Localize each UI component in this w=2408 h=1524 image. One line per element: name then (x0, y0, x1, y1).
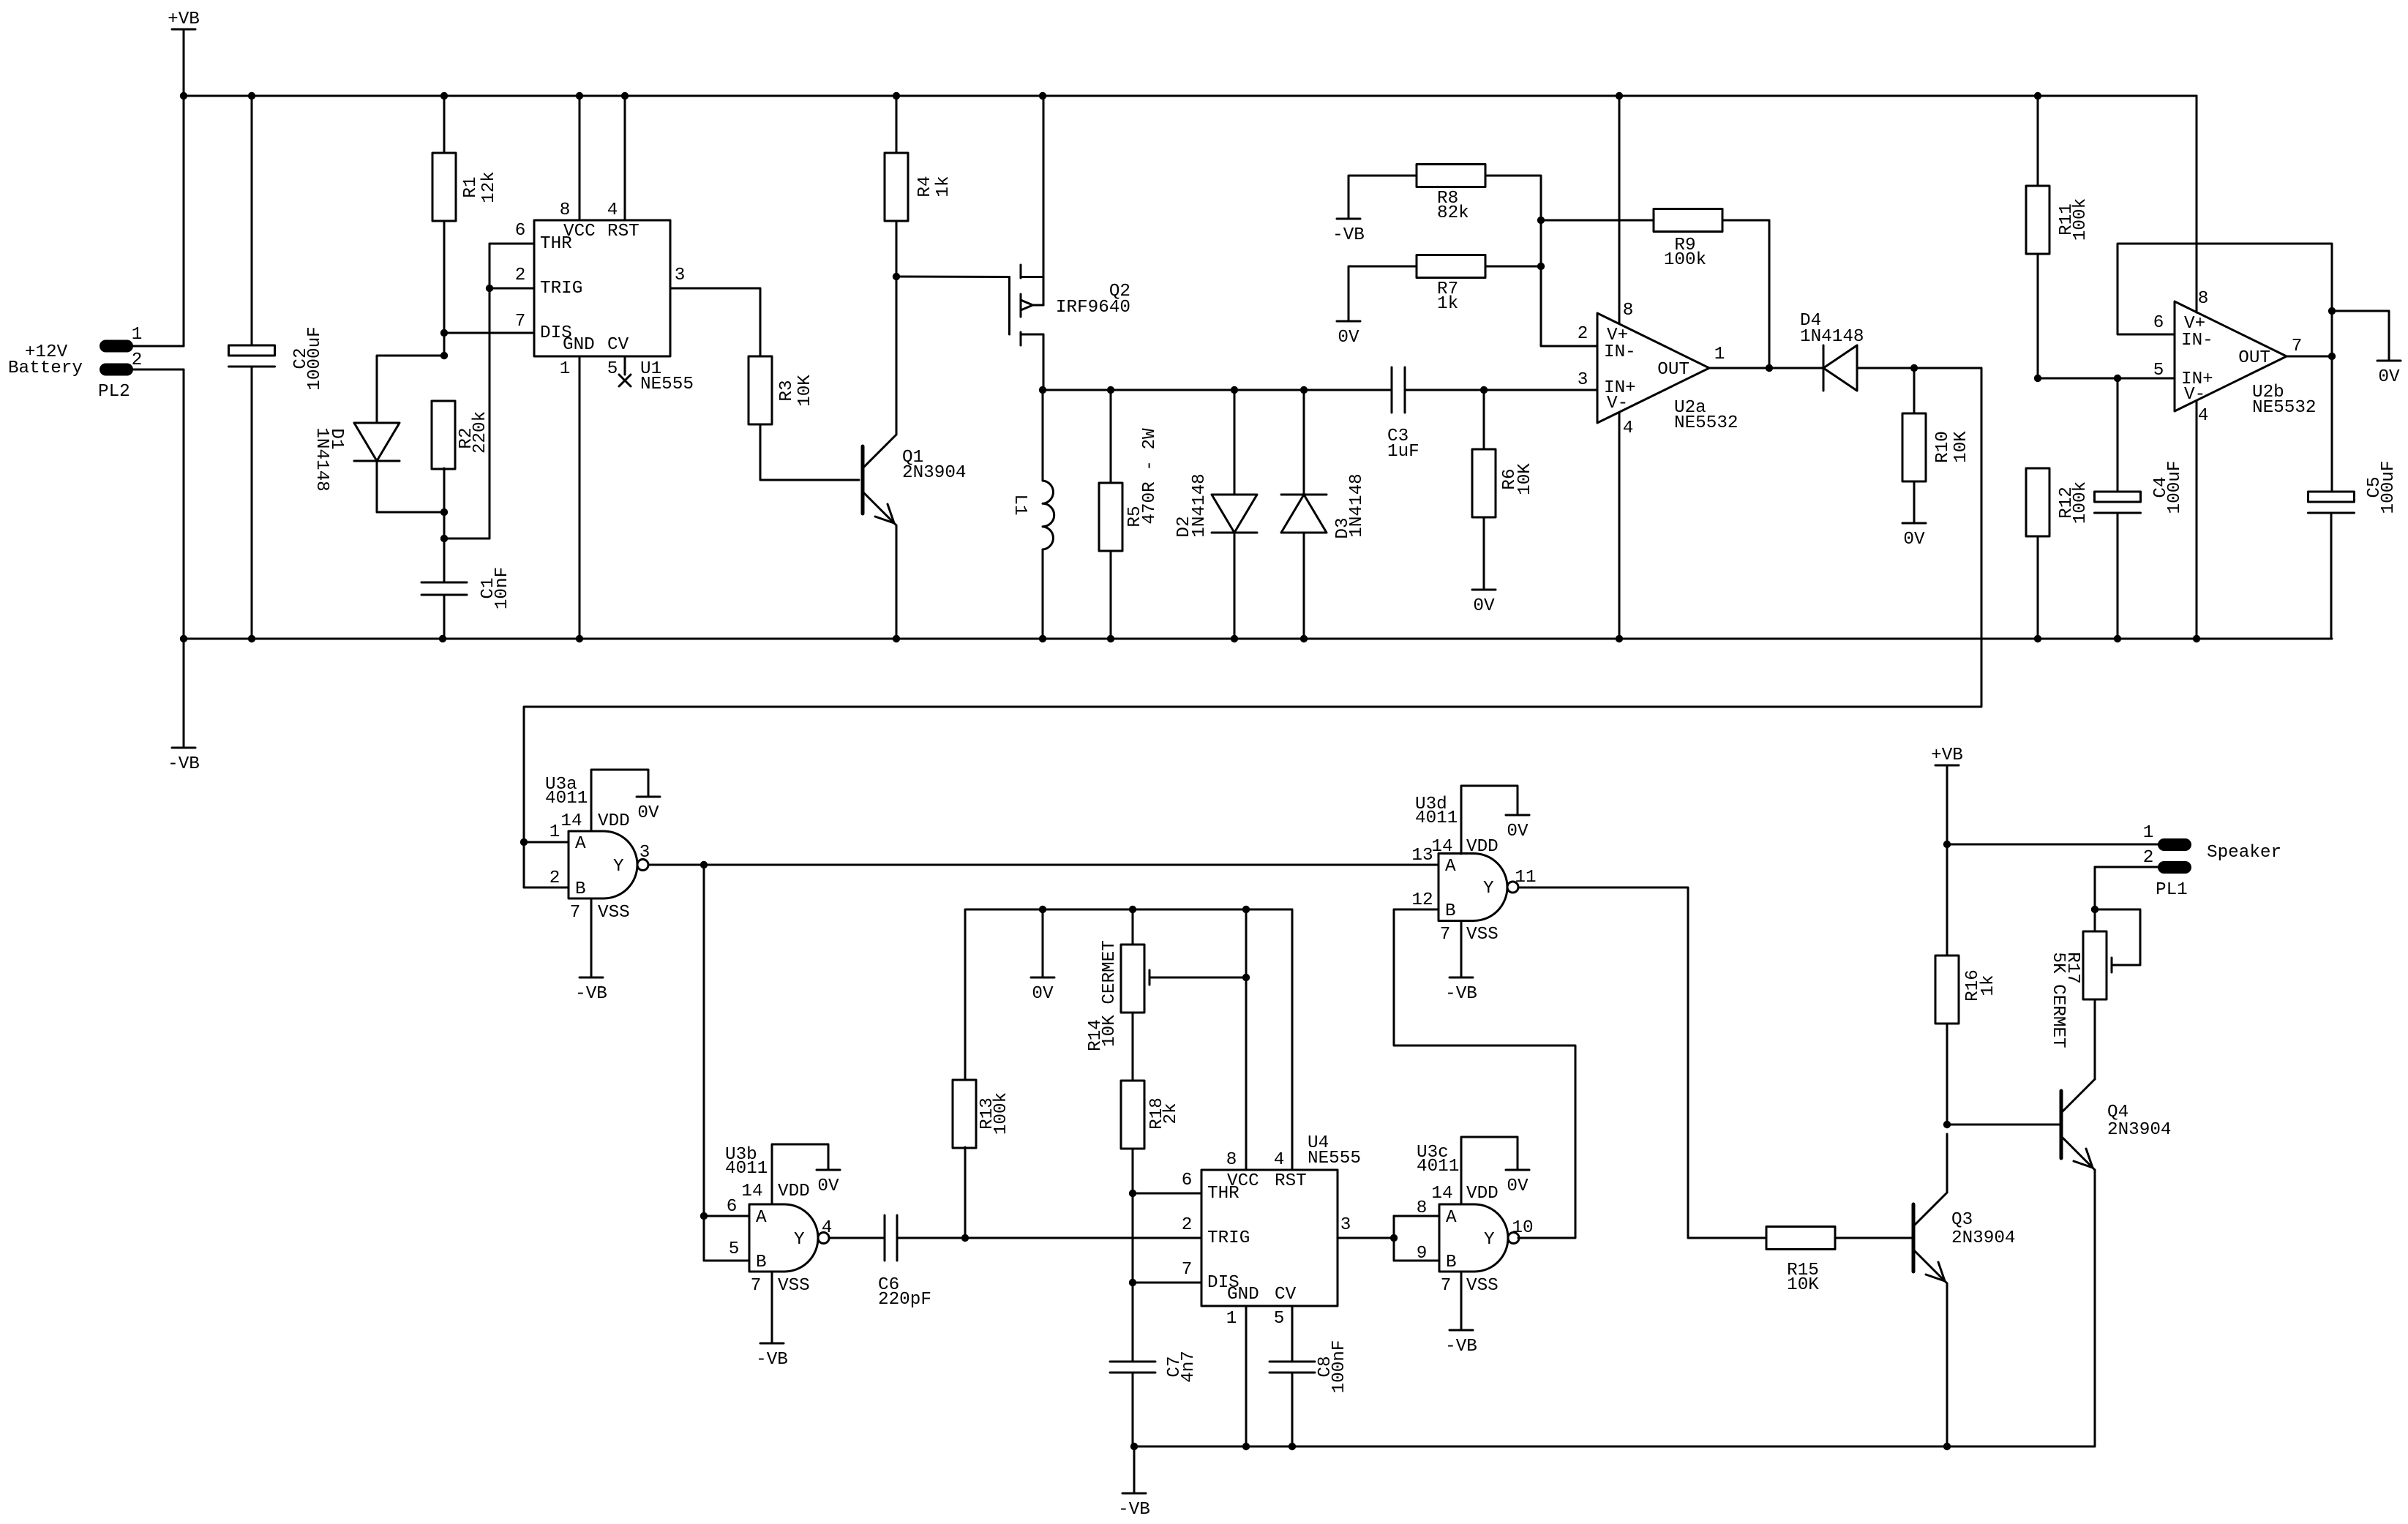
svg-text:-VB: -VB (756, 1350, 788, 1370)
svg-text:2: 2 (132, 350, 143, 370)
svg-text:7: 7 (515, 312, 526, 331)
svg-text:0V: 0V (1507, 1176, 1529, 1196)
svg-text:0V: 0V (637, 803, 659, 823)
svg-text:3: 3 (1340, 1215, 1351, 1235)
svg-text:GND: GND (563, 335, 595, 355)
svg-text:2: 2 (515, 266, 526, 285)
svg-text:0V: 0V (1338, 328, 1359, 348)
svg-text:5: 5 (729, 1239, 740, 1259)
svg-text:220pF: 220pF (878, 1290, 931, 1310)
svg-text:2: 2 (2143, 848, 2154, 868)
svg-text:1: 1 (1226, 1309, 1237, 1329)
svg-text:OUT: OUT (1657, 360, 1689, 380)
svg-text:1N4148: 1N4148 (1347, 473, 1367, 537)
svg-text:4: 4 (822, 1218, 833, 1238)
svg-text:7: 7 (570, 903, 581, 923)
svg-text:4: 4 (607, 200, 618, 220)
svg-text:R10: R10 (1933, 431, 1953, 463)
svg-text:VDD: VDD (598, 811, 630, 831)
svg-text:RST: RST (607, 222, 639, 241)
svg-text:82k: 82k (1437, 203, 1469, 223)
svg-text:OUT: OUT (2238, 348, 2270, 368)
svg-text:3: 3 (675, 266, 686, 285)
svg-text:RST: RST (1275, 1171, 1307, 1191)
svg-text:0V: 0V (1507, 822, 1529, 841)
svg-text:470R - 2W: 470R - 2W (1140, 428, 1160, 525)
svg-text:1000uF: 1000uF (305, 326, 325, 390)
svg-text:B: B (756, 1253, 767, 1272)
svg-text:14: 14 (1431, 837, 1452, 857)
svg-text:GND: GND (1227, 1285, 1259, 1305)
svg-text:7: 7 (1441, 1276, 1452, 1296)
svg-text:PL2: PL2 (98, 382, 130, 402)
svg-text:10K: 10K (795, 375, 815, 407)
svg-text:10nF: 10nF (492, 567, 512, 609)
svg-text:Y: Y (1484, 1230, 1495, 1250)
svg-text:VDD: VDD (778, 1182, 810, 1201)
svg-text:9: 9 (1417, 1244, 1428, 1264)
svg-text:1: 1 (550, 822, 560, 842)
svg-text:CV: CV (607, 335, 629, 355)
svg-text:2: 2 (550, 868, 560, 888)
svg-text:IN-: IN- (1604, 342, 1636, 362)
svg-text:PL1: PL1 (2156, 880, 2188, 900)
svg-text:0V: 0V (1032, 984, 1054, 1004)
svg-text:7: 7 (1440, 925, 1451, 945)
svg-text:4011: 4011 (1415, 808, 1458, 828)
svg-text:Y: Y (1483, 879, 1494, 898)
svg-text:-VB: -VB (1332, 225, 1365, 245)
svg-text:2k: 2k (1161, 1103, 1181, 1124)
svg-text:3: 3 (1578, 370, 1589, 390)
svg-text:1k: 1k (1978, 975, 1998, 996)
svg-text:14: 14 (1431, 1184, 1452, 1204)
svg-text:8: 8 (2198, 289, 2209, 309)
svg-text:2N3904: 2N3904 (902, 463, 966, 483)
svg-text:10K: 10K (1515, 463, 1535, 495)
svg-text:VDD: VDD (1466, 1184, 1499, 1204)
svg-text:2: 2 (1182, 1215, 1193, 1235)
svg-text:V-: V- (1607, 394, 1628, 413)
svg-text:A: A (756, 1208, 767, 1228)
svg-text:8: 8 (1623, 301, 1634, 320)
svg-text:5: 5 (607, 359, 618, 379)
svg-text:1N4148: 1N4148 (312, 427, 331, 491)
svg-text:CV: CV (1275, 1285, 1297, 1305)
svg-text:7: 7 (1182, 1260, 1193, 1280)
svg-text:6: 6 (515, 221, 526, 241)
svg-text:1uF: 1uF (1387, 442, 1419, 462)
svg-text:3: 3 (639, 843, 650, 863)
svg-text:4n7: 4n7 (1179, 1351, 1199, 1383)
svg-text:1k: 1k (1437, 294, 1458, 314)
svg-text:100k: 100k (991, 1092, 1011, 1135)
svg-text:5K CERMET: 5K CERMET (2048, 952, 2068, 1048)
svg-text:14: 14 (741, 1182, 762, 1201)
svg-text:VSS: VSS (598, 903, 630, 923)
svg-text:Q3: Q3 (1951, 1210, 1973, 1230)
svg-text:Speaker: Speaker (2207, 843, 2281, 863)
svg-text:IRF9640: IRF9640 (1056, 298, 1130, 318)
svg-text:1: 1 (560, 359, 571, 379)
svg-text:4011: 4011 (1417, 1157, 1459, 1176)
svg-text:VSS: VSS (1466, 925, 1499, 945)
svg-text:R4: R4 (915, 176, 935, 197)
svg-text:4011: 4011 (725, 1159, 768, 1179)
svg-text:7: 7 (2292, 337, 2303, 356)
svg-text:THR: THR (540, 234, 572, 254)
svg-text:VSS: VSS (778, 1276, 810, 1296)
svg-text:10K: 10K (1787, 1275, 1819, 1295)
svg-text:NE555: NE555 (640, 375, 694, 394)
svg-text:-VB: -VB (1445, 1337, 1477, 1356)
svg-text:1: 1 (1714, 345, 1725, 364)
svg-text:0V: 0V (1473, 596, 1495, 616)
svg-text:B: B (1445, 901, 1456, 921)
svg-text:12k: 12k (479, 171, 499, 203)
svg-text:2N3904: 2N3904 (2107, 1120, 2171, 1140)
svg-text:6: 6 (2153, 313, 2164, 333)
svg-text:4: 4 (2198, 406, 2209, 426)
svg-text:5: 5 (1274, 1309, 1285, 1329)
svg-text:-VB: -VB (1118, 1500, 1150, 1520)
svg-text:100k: 100k (2071, 198, 2090, 241)
svg-text:B: B (575, 879, 586, 899)
svg-text:12: 12 (1411, 890, 1433, 910)
svg-text:13: 13 (1411, 846, 1433, 866)
svg-text:+VB: +VB (168, 10, 200, 29)
svg-text:NE5532: NE5532 (1674, 413, 1738, 433)
svg-text:2: 2 (1578, 324, 1589, 344)
svg-text:8: 8 (1226, 1150, 1237, 1170)
svg-text:TRIG: TRIG (540, 279, 582, 299)
svg-text:1k: 1k (934, 176, 953, 197)
svg-text:Y: Y (613, 857, 624, 877)
svg-text:14: 14 (560, 811, 582, 831)
svg-text:Q4: Q4 (2107, 1103, 2128, 1122)
svg-text:220k: 220k (470, 411, 490, 454)
svg-text:2N3904: 2N3904 (1951, 1228, 2015, 1248)
svg-text:1: 1 (2143, 823, 2154, 843)
svg-text:A: A (1446, 1208, 1457, 1228)
svg-text:THR: THR (1207, 1184, 1239, 1204)
svg-text:IN-: IN- (2181, 331, 2213, 350)
svg-text:Battery: Battery (8, 359, 83, 378)
svg-text:A: A (1445, 857, 1456, 877)
svg-text:100k: 100k (1664, 250, 1706, 270)
svg-text:8: 8 (1417, 1198, 1428, 1218)
svg-text:NE5532: NE5532 (2252, 398, 2316, 418)
svg-text:8: 8 (560, 200, 571, 220)
svg-text:100nF: 100nF (1329, 1340, 1349, 1394)
svg-text:V-: V- (2184, 385, 2205, 405)
svg-text:Y: Y (794, 1230, 805, 1250)
svg-text:R1: R1 (461, 176, 481, 198)
svg-text:11: 11 (1515, 868, 1536, 887)
svg-text:0V: 0V (817, 1176, 839, 1196)
svg-text:0V: 0V (2378, 367, 2400, 387)
svg-text:5: 5 (2153, 361, 2164, 380)
svg-text:1N4148: 1N4148 (1800, 327, 1864, 347)
svg-text:100uF: 100uF (2379, 461, 2398, 514)
svg-text:10K: 10K (1951, 431, 1971, 463)
svg-text:VDD: VDD (1466, 837, 1499, 857)
svg-text:6: 6 (1182, 1171, 1193, 1190)
svg-text:A: A (575, 834, 586, 854)
svg-text:10K CERMET: 10K CERMET (1100, 940, 1119, 1047)
svg-text:10: 10 (1512, 1218, 1533, 1238)
svg-text:4: 4 (1623, 418, 1634, 438)
svg-text:0V: 0V (1903, 530, 1925, 549)
svg-text:7: 7 (751, 1276, 762, 1296)
svg-text:NE555: NE555 (1308, 1149, 1361, 1168)
svg-text:4011: 4011 (545, 789, 588, 808)
svg-text:100k: 100k (2071, 481, 2090, 524)
svg-text:+VB: +VB (1931, 746, 1963, 765)
svg-text:1N4148: 1N4148 (1190, 473, 1209, 537)
svg-text:R3: R3 (777, 380, 797, 401)
svg-text:100uF: 100uF (2165, 461, 2185, 514)
svg-text:-VB: -VB (575, 984, 607, 1004)
svg-text:TRIG: TRIG (1207, 1228, 1250, 1248)
svg-text:L1: L1 (1010, 494, 1029, 515)
svg-text:4: 4 (1274, 1150, 1285, 1170)
svg-text:1: 1 (132, 325, 143, 345)
svg-text:-VB: -VB (168, 754, 200, 774)
svg-text:-VB: -VB (1445, 984, 1477, 1004)
svg-text:6: 6 (727, 1197, 738, 1217)
svg-text:VSS: VSS (1466, 1276, 1499, 1296)
svg-text:B: B (1446, 1253, 1457, 1272)
